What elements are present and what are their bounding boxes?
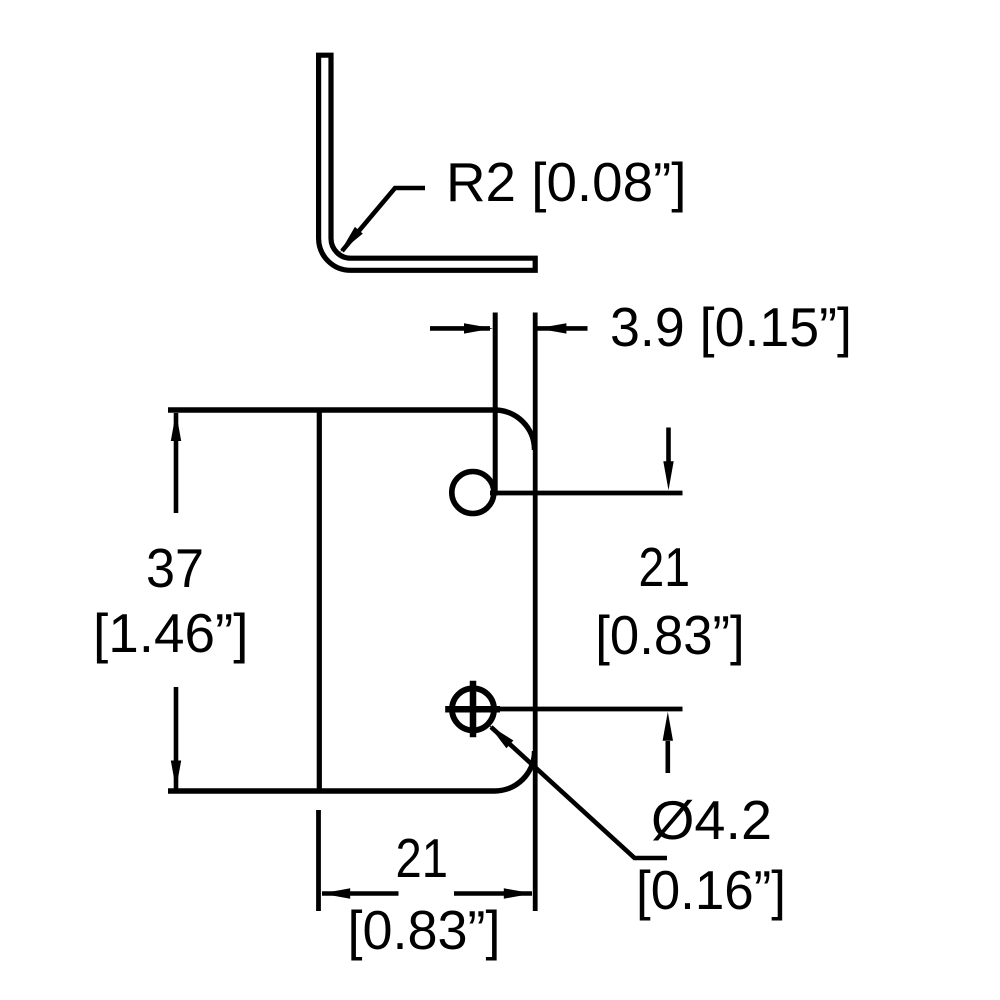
- svg-text:[1.46”]: [1.46”]: [93, 602, 249, 664]
- bottom 21 dim right arrow: [454, 891, 532, 896]
- bottom hole centerline / dim line: [446, 707, 683, 712]
- leader arrow for bend radius R2: [342, 188, 425, 251]
- 21 dim up arrow: [665, 741, 670, 773]
- svg-text:21: 21: [639, 536, 691, 598]
- bottom hole horizontal centermark: [445, 706, 500, 713]
- plate right edge + extension lines (top 3.9 dim, bottom 21 dim): [533, 313, 538, 912]
- svg-text:21: 21: [396, 827, 449, 889]
- svg-text:[0.83”]: [0.83”]: [348, 899, 501, 961]
- bottom 21 dim left arrow: [322, 891, 399, 896]
- extension line from top hole for 3.9 dim: [493, 313, 498, 496]
- svg-text:37: 37: [146, 537, 204, 599]
- svg-text:Ø4.2: Ø4.2: [651, 789, 772, 851]
- plate top edge with 37-dim extension (rounded top-right corner): [168, 410, 535, 450]
- svg-text:[0.16”]: [0.16”]: [636, 859, 786, 921]
- left extension line for bottom 21 dim: [316, 810, 321, 911]
- plate left edge / bend line: [317, 410, 322, 791]
- 37 dim lower arrow: [174, 687, 179, 789]
- bottom hole Ø4.2: [452, 688, 494, 730]
- 3.9 dim right arrow: [538, 326, 588, 331]
- top hole centerline / dim line: [490, 491, 683, 496]
- svg-text:[0.83”]: [0.83”]: [595, 604, 744, 666]
- svg-text:3.9 [0.15”]: 3.9 [0.15”]: [610, 296, 852, 358]
- plate bottom edge with 37-dim extension (rounded bottom-right corner): [168, 751, 535, 791]
- bracket cross-section L-profile: [319, 55, 536, 270]
- svg-text:R2 [0.08”]: R2 [0.08”]: [446, 151, 687, 213]
- top hole: [452, 472, 494, 514]
- leader arrow for hole diameter: [491, 727, 667, 858]
- 37 dim upper arrow: [174, 413, 179, 513]
- bottom hole vertical centermark: [470, 681, 477, 738]
- 21 dim down arrow: [666, 428, 671, 464]
- 3.9 dim left arrow: [430, 326, 490, 331]
